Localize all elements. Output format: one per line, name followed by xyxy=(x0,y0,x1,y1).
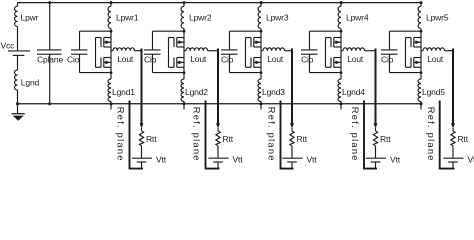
transistor M4b (low side) xyxy=(326,58,342,68)
svg-text:Vtt: Vtt xyxy=(390,155,401,165)
svg-text:Lpwr5: Lpwr5 xyxy=(426,13,449,23)
svg-text:Cio: Cio xyxy=(301,54,314,64)
transistor M2b (low side) xyxy=(169,58,185,68)
inductor Lgnd xyxy=(15,55,40,103)
svg-text:Cio: Cio xyxy=(221,54,234,64)
capacitor Cio (stage 3) xyxy=(221,31,261,72)
wire reference plane return stage 3 xyxy=(281,101,294,169)
node Ref. plane label stage 3 xyxy=(267,107,277,162)
node stage 4 power rail xyxy=(339,1,342,109)
node Ref. plane label stage 2 xyxy=(192,107,202,162)
capacitor Cplane xyxy=(37,1,63,105)
wire gate bus stage 5 xyxy=(405,38,407,68)
wire reference plane return stage 2 xyxy=(206,101,220,169)
transistor M5a (high side) xyxy=(406,38,422,48)
transistor M4a (high side) xyxy=(326,38,342,48)
inductor Lpwr5 xyxy=(418,6,449,28)
inductor Lout (stage 4) xyxy=(341,48,376,64)
svg-text:Ref. plane: Ref. plane xyxy=(116,107,126,162)
wire load feed stage 2 xyxy=(216,49,220,131)
svg-text:Lgnd2: Lgnd2 xyxy=(185,87,208,97)
source Vtt (stage 5) xyxy=(443,146,474,169)
wire load feed stage 5 xyxy=(451,49,455,131)
svg-text:Vcc: Vcc xyxy=(1,41,16,51)
svg-text:Lpwr4: Lpwr4 xyxy=(346,13,369,23)
inductor Lpwr2 xyxy=(181,6,212,28)
svg-text:Lgnd1: Lgnd1 xyxy=(112,87,135,97)
svg-text:Lgnd: Lgnd xyxy=(21,77,40,87)
svg-text:Cplane: Cplane xyxy=(37,54,63,64)
transistor M3a (high side) xyxy=(246,38,262,48)
inductor Lout (stage 5) xyxy=(421,48,453,64)
node Vss junction xyxy=(16,102,19,105)
wire reference plane return stage 5 xyxy=(440,101,455,169)
inductor Lpwr3 xyxy=(258,6,289,28)
svg-text:Lgnd3: Lgnd3 xyxy=(262,87,285,97)
svg-text:Lout: Lout xyxy=(427,54,444,64)
svg-text:Vtt: Vtt xyxy=(233,155,244,165)
wire gate bus stage 3 xyxy=(245,38,247,68)
svg-text:Lpwr: Lpwr xyxy=(21,13,39,23)
svg-text:Ref. plane: Ref. plane xyxy=(192,107,202,162)
svg-text:Cio: Cio xyxy=(144,54,157,64)
svg-text:Rtt: Rtt xyxy=(146,134,157,144)
capacitor Cio (stage 1) xyxy=(67,31,111,72)
svg-text:Vtt: Vtt xyxy=(307,155,318,165)
source Vtt (stage 2) xyxy=(208,146,243,169)
wire load feed stage 4 xyxy=(374,49,378,131)
wire gate bus stage 1 xyxy=(95,38,97,68)
inductor Lout (stage 2) xyxy=(184,48,218,64)
inductor Lout (stage 1) xyxy=(111,48,142,64)
svg-text:Ref. plane: Ref. plane xyxy=(267,107,277,162)
svg-text:Lpwr2: Lpwr2 xyxy=(189,13,212,23)
wire top power bus xyxy=(18,2,422,4)
source Vtt (stage 4) xyxy=(366,146,401,169)
wire gate bus stage 4 xyxy=(325,38,327,68)
node stage 2 power rail xyxy=(182,1,185,109)
inductor Lgnd4 xyxy=(338,79,365,102)
resistor Rtt (stage 1) xyxy=(139,131,157,146)
svg-text:Lgnd4: Lgnd4 xyxy=(342,87,365,97)
svg-text:Cio: Cio xyxy=(67,54,80,64)
node Ref. plane label stage 5 xyxy=(426,107,436,162)
svg-text:Lout: Lout xyxy=(347,54,364,64)
svg-text:Lout: Lout xyxy=(117,54,134,64)
node Ref. plane label stage 1 xyxy=(116,107,126,162)
node stage 3 power rail xyxy=(259,1,262,109)
transistor M5b (low side) xyxy=(406,58,422,68)
resistor Rtt (stage 5) xyxy=(451,131,469,146)
node stage 1 power rail xyxy=(109,1,112,109)
inductor Lpwr xyxy=(14,3,38,27)
ground xyxy=(12,104,25,121)
source Vcc xyxy=(1,27,31,56)
source Vtt (stage 3) xyxy=(282,146,317,169)
node stage 5 power rail xyxy=(419,1,422,109)
wire load feed stage 1 xyxy=(140,49,144,131)
svg-text:Vtt: Vtt xyxy=(468,155,474,165)
wire load feed stage 3 xyxy=(290,49,294,131)
node Ref. plane label stage 4 xyxy=(350,107,360,162)
svg-text:Cio: Cio xyxy=(381,54,394,64)
inductor Lgnd2 xyxy=(181,79,208,102)
transistor M3b (low side) xyxy=(246,58,262,68)
svg-text:Rtt: Rtt xyxy=(380,134,391,144)
wire gate bus stage 2 xyxy=(168,38,170,68)
svg-text:Lgnd5: Lgnd5 xyxy=(422,87,445,97)
inductor Lgnd1 xyxy=(108,79,135,102)
svg-text:Lpwr3: Lpwr3 xyxy=(266,13,289,23)
wire reference plane return stage 1 xyxy=(130,101,144,169)
wire reference plane return stage 4 xyxy=(364,101,377,169)
svg-text:Lout: Lout xyxy=(267,54,284,64)
svg-text:Lout: Lout xyxy=(190,54,207,64)
inductor Lgnd5 xyxy=(418,79,445,102)
svg-text:Vtt: Vtt xyxy=(156,155,167,165)
inductor Lgnd3 xyxy=(258,79,285,102)
capacitor Cio (stage 4) xyxy=(301,31,341,72)
inductor Lpwr4 xyxy=(338,6,369,28)
resistor Rtt (stage 2) xyxy=(216,131,234,146)
source Vtt (stage 1) xyxy=(132,146,167,169)
svg-text:Rtt: Rtt xyxy=(223,134,234,144)
inductor Lpwr1 xyxy=(108,6,139,28)
capacitor Cio (stage 2) xyxy=(144,31,184,72)
svg-text:Lpwr1: Lpwr1 xyxy=(116,13,139,23)
transistor M1a (high side) xyxy=(96,38,112,48)
transistor M2a (high side) xyxy=(169,38,185,48)
transistor M1b (low side) xyxy=(96,58,112,68)
resistor Rtt (stage 3) xyxy=(290,131,308,146)
capacitor Cio (stage 5) xyxy=(381,31,421,72)
svg-text:Ref. plane: Ref. plane xyxy=(426,107,436,162)
resistor Rtt (stage 4) xyxy=(373,131,391,146)
inductor Lout (stage 3) xyxy=(261,48,292,64)
wire bottom ground bus xyxy=(18,103,422,105)
svg-text:Rtt: Rtt xyxy=(458,134,469,144)
svg-text:Ref. plane: Ref. plane xyxy=(350,107,360,162)
svg-text:Rtt: Rtt xyxy=(297,134,308,144)
